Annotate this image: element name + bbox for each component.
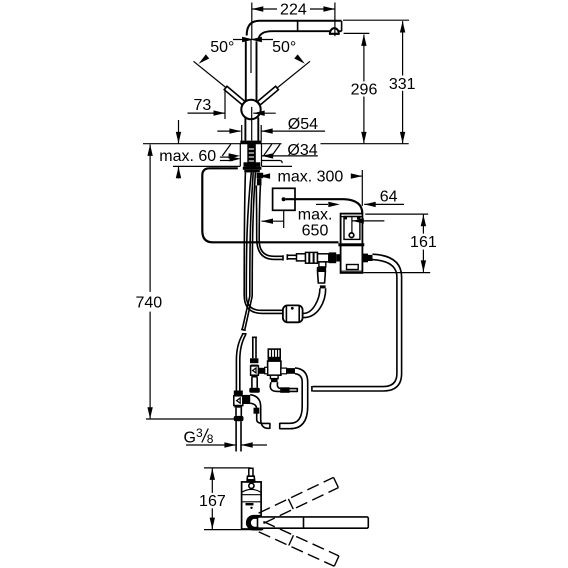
lever bar right <box>258 86 279 105</box>
counter top line <box>143 143 282 145</box>
dimension 331 <box>343 19 409 21</box>
riser hose from weight to T <box>304 288 326 317</box>
lever bar left <box>224 86 245 105</box>
elbow hose from thermo bottom <box>270 382 297 391</box>
svg-text:max.: max. <box>298 207 333 224</box>
neck lines <box>245 41 247 101</box>
svg-text:3: 3 <box>196 426 203 440</box>
bottom view: faucet side profile <box>242 482 262 529</box>
mousseur aerator dome <box>330 28 339 34</box>
dashed spout up <box>259 477 339 523</box>
angle valve right hose <box>244 395 251 404</box>
spout bar <box>258 517 369 528</box>
dimension 740 <box>149 145 151 292</box>
dimension 224 <box>251 3 253 40</box>
counter bottom line <box>173 165 240 167</box>
svg-text:Ø54: Ø54 <box>288 116 318 133</box>
svg-text:50°: 50° <box>210 39 234 56</box>
svg-text:50°: 50° <box>272 39 296 56</box>
shank below counter <box>244 162 261 167</box>
svg-text:max. 60: max. 60 <box>159 148 216 165</box>
counter hatching <box>222 144 231 156</box>
svg-text:161: 161 <box>410 234 437 251</box>
svg-text:Ø34: Ø34 <box>287 142 317 159</box>
angle valve <box>234 391 243 396</box>
svg-text:650: 650 <box>302 223 329 240</box>
dimension 296 <box>344 32 370 34</box>
svg-text:740: 740 <box>135 294 162 311</box>
control box right hose going down <box>362 254 368 263</box>
spout divider line <box>297 21 299 31</box>
hose from break to angle valve <box>236 335 242 391</box>
G3/8 tail pipe <box>235 421 237 451</box>
small leader lines under max60 <box>220 156 233 158</box>
ball leader arrow <box>253 112 276 114</box>
svg-text:G: G <box>184 430 196 447</box>
ball joint <box>241 100 260 119</box>
counter hole edges <box>239 144 241 166</box>
T branch below chain <box>319 262 326 267</box>
svg-text:167: 167 <box>199 493 226 510</box>
thermo right hose J down <box>280 368 308 429</box>
pull-out hose bend to weight <box>244 295 283 313</box>
svg-text:max. 300: max. 300 <box>277 169 343 186</box>
pivot heavy arc <box>246 515 262 531</box>
bottom view: dimension 167 <box>204 467 251 469</box>
thermo valve <box>258 368 264 374</box>
svg-text:331: 331 <box>389 76 416 93</box>
dashed spout down <box>259 522 339 567</box>
dimension 161 <box>365 213 428 215</box>
check valve column <box>252 338 254 359</box>
faucet hoses below counter <box>244 172 245 295</box>
lever axis line <box>250 40 252 73</box>
cable from sensor to control box <box>286 199 363 213</box>
sensor box symbol <box>273 188 295 210</box>
spout horizontal tube with bend <box>247 21 342 36</box>
svg-text:8: 8 <box>207 432 214 446</box>
svg-text:64: 64 <box>380 189 398 206</box>
svg-text:73: 73 <box>194 97 212 114</box>
weight <box>283 305 303 322</box>
flange <box>240 141 261 144</box>
svg-text:224: 224 <box>280 1 307 18</box>
dimension 73 <box>224 89 226 120</box>
chain from hose to control box <box>287 254 296 256</box>
svg-text:296: 296 <box>351 82 378 99</box>
sensor cable left loop <box>202 168 338 242</box>
control box <box>341 214 363 273</box>
faucet body lower <box>241 125 243 141</box>
